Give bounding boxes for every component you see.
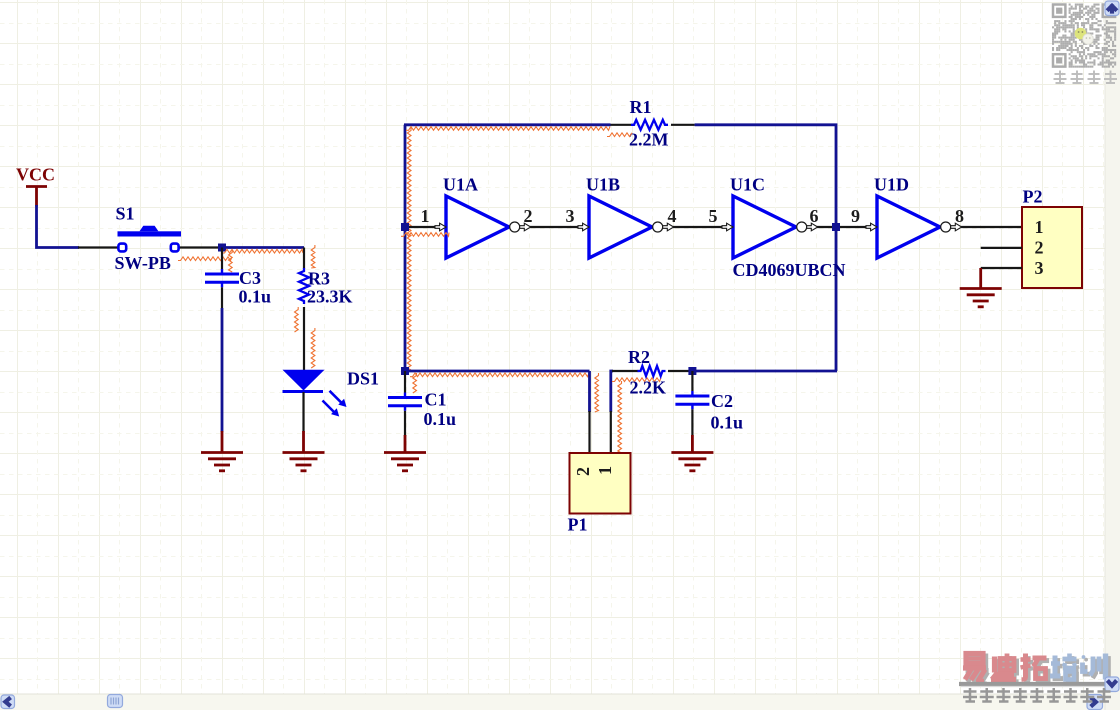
compile squiggle under S1-R3 wire xyxy=(222,249,303,253)
capacitor C3 xyxy=(205,248,239,309)
svg-text:2: 2 xyxy=(524,206,533,226)
wire VCC to S1 xyxy=(37,205,80,248)
decorative QR watermark xyxy=(1052,4,1116,68)
svg-text:6: 6 xyxy=(810,206,819,226)
resistor R1 xyxy=(611,120,695,130)
squiggle under U1A input pin xyxy=(401,233,449,237)
wire left feedback column xyxy=(404,125,407,371)
compile squiggle right of SW-PB xyxy=(178,257,232,261)
svg-text:23.3K: 23.3K xyxy=(307,287,353,307)
svg-text:1: 1 xyxy=(595,466,615,475)
P2 pin 2 stub xyxy=(981,247,1022,249)
squiggle right of R3 bottom pin xyxy=(311,328,315,368)
svg-text:P2: P2 xyxy=(1023,187,1043,207)
svg-text:U1A: U1A xyxy=(443,175,478,195)
capacitor C2 xyxy=(675,371,709,436)
squiggle along left column xyxy=(407,128,411,370)
wire R1 to right feedback column xyxy=(695,125,836,371)
wire R2 node to right column xyxy=(692,370,837,373)
ground below C2 xyxy=(671,435,713,471)
svg-text:3: 3 xyxy=(1035,258,1044,278)
svg-text:C2: C2 xyxy=(711,391,733,411)
svg-text:2: 2 xyxy=(1035,237,1044,257)
vertical scrollbar track xyxy=(1105,0,1120,710)
svg-text:SW-PB: SW-PB xyxy=(115,253,171,273)
ground below C3 xyxy=(201,431,243,471)
capacitor C1 xyxy=(388,371,422,436)
QR center logo bubbles xyxy=(1075,28,1094,44)
QR caption glyphs xyxy=(1054,71,1118,84)
inverter gate U1C xyxy=(733,196,796,258)
svg-text:3: 3 xyxy=(566,206,575,226)
watermark underline xyxy=(959,682,1111,686)
connector P1 xyxy=(570,453,631,514)
svg-text:2.2M: 2.2M xyxy=(629,130,669,150)
svg-text:U1B: U1B xyxy=(586,175,620,195)
inverter gate U1A xyxy=(446,196,509,258)
svg-text:C3: C3 xyxy=(239,268,261,288)
pin 1 wire into U1A xyxy=(405,226,436,228)
P2 pin 3 wire xyxy=(981,267,1022,269)
svg-text:8: 8 xyxy=(955,206,964,226)
scrollbar left button xyxy=(1,695,15,709)
svg-text:1: 1 xyxy=(421,206,430,226)
ground below P2 pin 3 xyxy=(960,268,1002,307)
wire U1B out to U1C in xyxy=(673,226,723,228)
svg-text:R1: R1 xyxy=(630,97,652,117)
squiggle right of P1 pin1 wire xyxy=(618,381,622,453)
wire down to P1 pin 1 xyxy=(611,371,613,412)
wire left column to R1 xyxy=(404,123,611,126)
junction U1A input xyxy=(401,223,409,231)
inverter gate U1D xyxy=(877,196,940,258)
connector P2 xyxy=(1022,207,1082,288)
wire U1C out to U1D in xyxy=(817,226,867,228)
svg-text:C1: C1 xyxy=(425,390,447,410)
junction U1C output / feedback xyxy=(832,223,840,231)
U1C output bubble xyxy=(797,222,807,232)
wire S1 node to R3 xyxy=(222,246,304,249)
resistor R3 xyxy=(299,248,309,371)
svg-text:4: 4 xyxy=(668,206,677,226)
squiggle right of R3 top pin xyxy=(311,245,315,268)
scrollbar up button xyxy=(1105,1,1119,16)
squiggle left of R3 bottom pin xyxy=(295,307,299,332)
svg-text:2: 2 xyxy=(573,467,593,476)
svg-text:5: 5 xyxy=(709,206,718,226)
ground below C1 xyxy=(384,435,426,471)
svg-text:U1D: U1D xyxy=(874,175,909,195)
scrollbar thumb xyxy=(108,695,123,708)
compile squiggle right of C3 top pin xyxy=(229,250,233,272)
wire down to P1 pin 2 xyxy=(588,371,591,412)
svg-text:9: 9 xyxy=(851,206,860,226)
svg-text:DS1: DS1 xyxy=(347,369,379,389)
horizontal scrollbar track xyxy=(0,694,1120,710)
U1B output bubble xyxy=(653,222,663,232)
svg-text:0.1u: 0.1u xyxy=(424,409,457,429)
svg-text:S1: S1 xyxy=(116,204,135,224)
svg-text:P1: P1 xyxy=(568,515,588,535)
ground below DS1 xyxy=(283,431,325,471)
svg-text:1: 1 xyxy=(1035,217,1044,237)
inverter gate U1B xyxy=(589,196,652,258)
svg-text:CD4069UBCN: CD4069UBCN xyxy=(733,260,846,280)
squiggle under bottom wire xyxy=(410,373,589,377)
svg-text:R2: R2 xyxy=(628,347,650,367)
squiggle under R1 left wire xyxy=(406,127,610,131)
squiggle under R2 corner xyxy=(612,378,661,382)
U1D output bubble xyxy=(941,222,951,232)
resistor R2 xyxy=(612,366,692,376)
scrollbar down button xyxy=(1105,677,1119,692)
junction node S1-C3-R3 xyxy=(218,244,226,252)
svg-text:VCC: VCC xyxy=(16,165,55,185)
switch S1 SW-PB xyxy=(78,226,222,252)
power port VCC xyxy=(16,165,55,207)
LED DS1 xyxy=(283,370,347,432)
squiggle under R1 value xyxy=(607,133,632,137)
junction C1 node xyxy=(401,367,409,375)
watermark subtitle glyphs xyxy=(963,688,1111,702)
squiggle right of P1 pin2 wire xyxy=(595,373,599,412)
wire C3 to ground xyxy=(221,308,224,432)
svg-text:R3: R3 xyxy=(308,269,330,289)
svg-text:0.1u: 0.1u xyxy=(239,287,272,307)
squiggle right of C1 pin xyxy=(413,373,417,393)
scrollbar right button xyxy=(1087,695,1103,710)
wire U1D out to P2 pin 1 xyxy=(961,226,1022,228)
svg-text:U1C: U1C xyxy=(730,175,765,195)
svg-text:0.1u: 0.1u xyxy=(711,413,744,433)
U1A output bubble xyxy=(510,222,520,232)
wire U1A out to U1B in xyxy=(530,226,579,228)
watermark logo big characters xyxy=(966,656,1109,684)
svg-text:2.2K: 2.2K xyxy=(630,378,667,398)
junction R2-C2 node xyxy=(688,367,696,375)
wire C1 node to P1 pin2 corner xyxy=(405,370,590,373)
